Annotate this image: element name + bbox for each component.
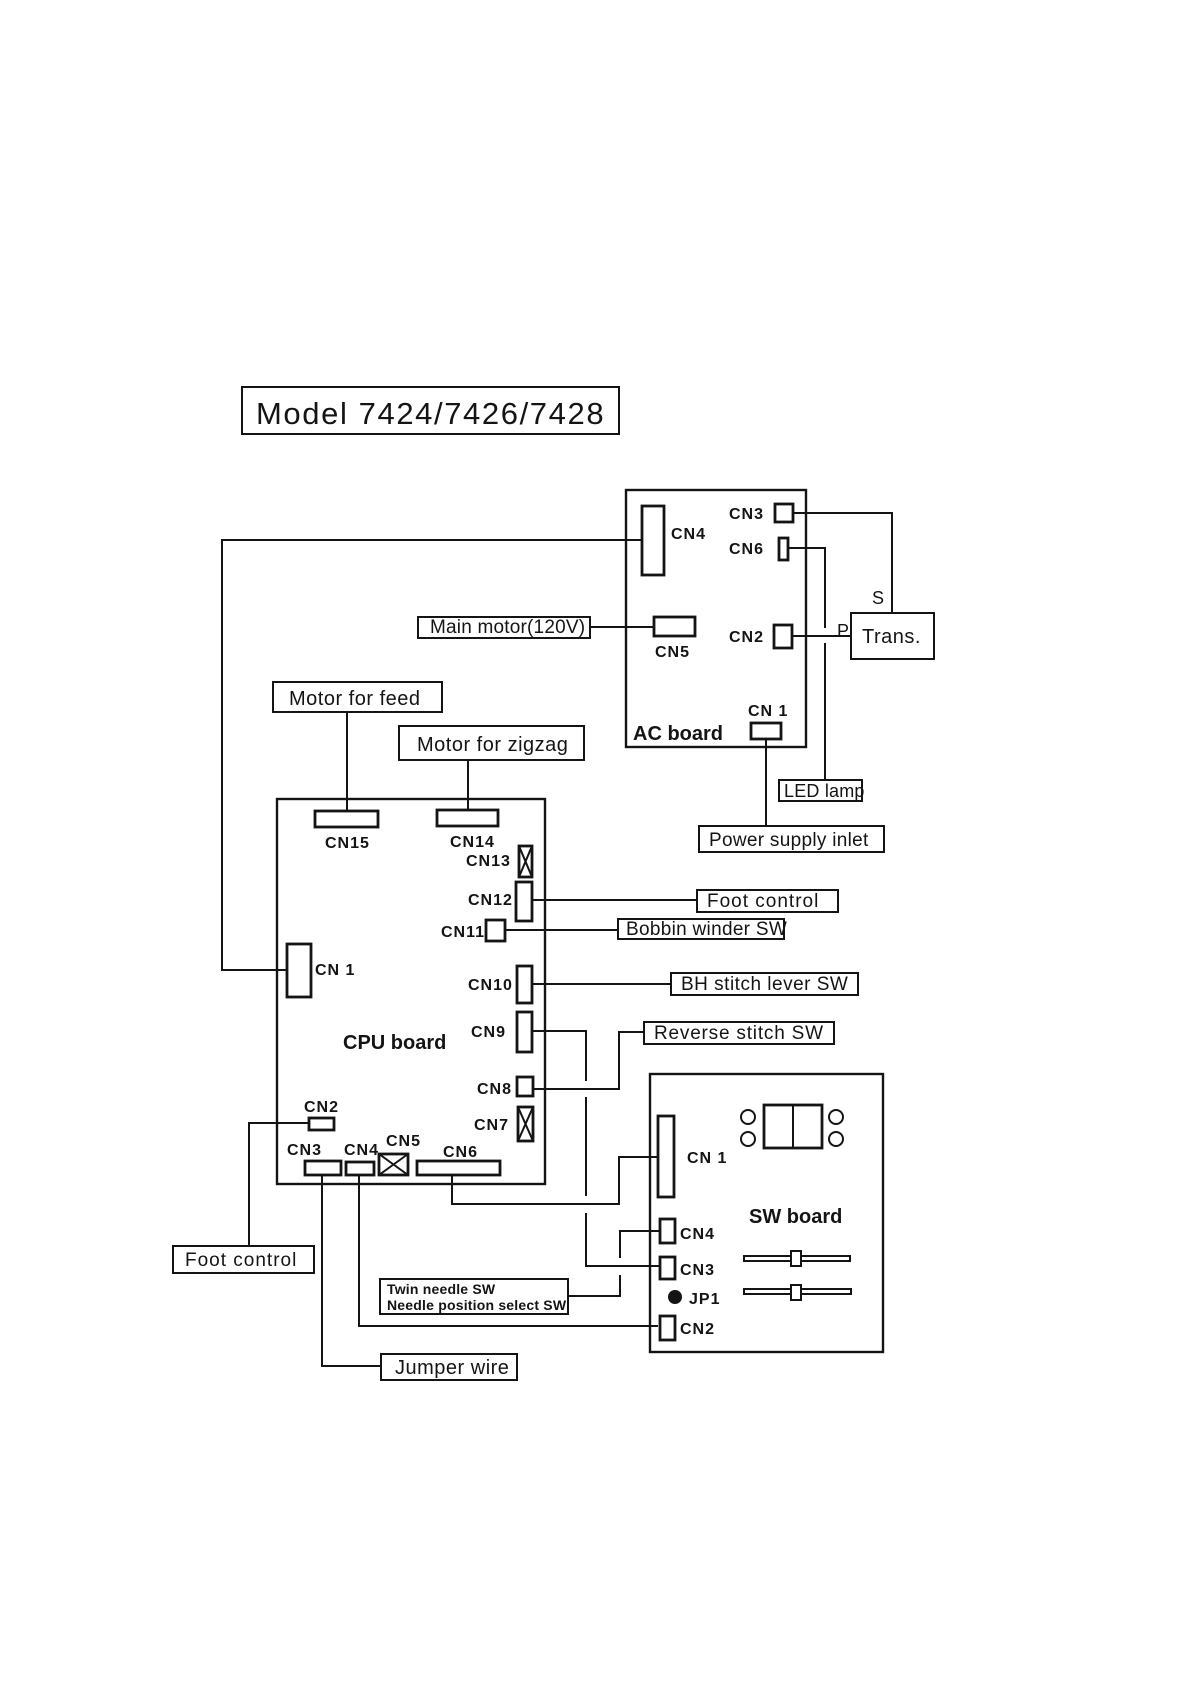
- wire AC CN3 to Trans S: [793, 513, 892, 613]
- svg-text:Needle position select SW: Needle position select SW: [387, 1297, 567, 1313]
- svg-text:CN9: CN9: [471, 1024, 506, 1041]
- svg-text:Twin needle SW: Twin needle SW: [387, 1281, 496, 1297]
- connector CN1 (SW board): [658, 1116, 727, 1197]
- SW board outline: [650, 1074, 883, 1352]
- connector CN9 (CPU board): [471, 1012, 532, 1052]
- connector CN7 (CPU board, keyed): [474, 1107, 533, 1141]
- svg-text:P: P: [837, 621, 850, 641]
- transformer Trans.: [851, 613, 934, 659]
- label box Motor for zigzag: [399, 726, 584, 760]
- svg-text:Foot control: Foot control: [707, 891, 819, 912]
- connector CN1 (CPU board): [287, 944, 355, 997]
- label box BH stitch lever SW: [671, 973, 858, 995]
- connector CN4 (SW board): [660, 1219, 715, 1243]
- connector CN3 (AC board): [729, 504, 793, 523]
- wire CPU CN2 to Foot control (bottom left): [249, 1123, 309, 1246]
- label box Twin needle SW / Needle position select SW: [380, 1279, 568, 1314]
- svg-text:Motor for zigzag: Motor for zigzag: [417, 734, 568, 756]
- connector CN6 (AC board): [729, 538, 788, 560]
- label box Bobbin winder SW: [618, 919, 787, 940]
- svg-text:CN4: CN4: [344, 1142, 379, 1159]
- svg-text:CN10: CN10: [468, 977, 513, 994]
- wire AC CN4 to CPU CN1: [222, 540, 642, 970]
- svg-text:CN8: CN8: [477, 1081, 512, 1098]
- svg-text:CN5: CN5: [655, 644, 690, 661]
- label box Motor for feed: [273, 682, 442, 712]
- connector CN6 (CPU board): [417, 1144, 500, 1175]
- svg-text:CN 1: CN 1: [315, 962, 355, 979]
- svg-text:Jumper wire: Jumper wire: [395, 1357, 509, 1379]
- connector CN14 (CPU board): [437, 810, 498, 851]
- label box Reverse stitch SW: [644, 1022, 834, 1044]
- svg-text:CN4: CN4: [680, 1226, 715, 1243]
- connector CN4 (CPU board): [344, 1142, 379, 1175]
- wire CN9 to SW CN3 (vertical with crossing gaps): [532, 1031, 586, 1081]
- label box Jumper wire: [381, 1354, 517, 1380]
- connector CN8 (CPU board): [477, 1077, 533, 1098]
- svg-text:Bobbin winder SW: Bobbin winder SW: [626, 919, 787, 940]
- slider SW 1 (SW board): [744, 1251, 850, 1266]
- connector CN2 (CPU board): [304, 1099, 339, 1130]
- svg-text:CN15: CN15: [325, 835, 370, 852]
- slider SW 2 (SW board): [744, 1285, 851, 1300]
- svg-text:CN12: CN12: [468, 892, 513, 909]
- svg-text:JP1: JP1: [689, 1291, 720, 1308]
- svg-text:Power supply inlet: Power supply inlet: [709, 830, 869, 851]
- svg-text:Trans.: Trans.: [862, 626, 921, 648]
- connector CN11 (CPU board): [441, 920, 505, 941]
- connector CN5 (CPU board, keyed): [379, 1133, 421, 1175]
- svg-text:CN2: CN2: [729, 629, 764, 646]
- svg-text:Foot control: Foot control: [185, 1250, 297, 1271]
- svg-text:S: S: [872, 588, 885, 608]
- svg-text:CN4: CN4: [671, 526, 706, 543]
- svg-text:CN14: CN14: [450, 834, 495, 851]
- wire AC CN1 to Power supply inlet: [765, 739, 767, 826]
- switch block (SW board): [764, 1105, 822, 1148]
- mounting hole: [829, 1110, 843, 1124]
- label box Power supply inlet: [699, 826, 884, 852]
- wire Reverse stitch SW to CN8: [533, 1032, 644, 1089]
- label box Foot control (right): [697, 890, 838, 912]
- svg-text:CPU board: CPU board: [343, 1032, 446, 1054]
- connector CN2 (SW board): [660, 1316, 715, 1340]
- label box LED lamp: [779, 780, 865, 801]
- connector CN3 (CPU board): [287, 1142, 341, 1175]
- connector CN2 (AC board): [729, 625, 792, 648]
- wire (continues, gap at crossing): [824, 643, 826, 780]
- connector CN3 (SW board): [660, 1257, 715, 1279]
- svg-text:CN6: CN6: [729, 541, 764, 558]
- svg-text:AC board: AC board: [633, 723, 723, 745]
- svg-text:CN2: CN2: [304, 1099, 339, 1116]
- svg-text:LED lamp: LED lamp: [784, 781, 865, 801]
- svg-text:SW board: SW board: [749, 1206, 842, 1228]
- title box Model 7424/7426/7428: [242, 387, 619, 434]
- svg-text:Reverse stitch SW: Reverse stitch SW: [654, 1023, 824, 1044]
- label box Foot control (bottom left): [173, 1246, 314, 1273]
- svg-text:CN7: CN7: [474, 1117, 509, 1134]
- svg-text:Main motor(120V): Main motor(120V): [430, 617, 585, 638]
- svg-text:BH stitch lever SW: BH stitch lever SW: [681, 974, 848, 995]
- wire Motor for feed to CN15: [346, 712, 348, 811]
- svg-text:CN13: CN13: [466, 853, 511, 870]
- wire CN10 to BH stitch lever SW: [532, 983, 671, 985]
- svg-text:CN5: CN5: [386, 1133, 421, 1150]
- svg-text:CN3: CN3: [729, 506, 764, 523]
- wire Motor for zigzag to CN14: [467, 760, 469, 810]
- AC board outline: [626, 490, 806, 747]
- connector CN1 (AC board): [748, 703, 788, 739]
- connector CN15 (CPU board): [315, 811, 378, 852]
- svg-text:CN6: CN6: [443, 1144, 478, 1161]
- connector CN13 (CPU board, keyed): [466, 846, 532, 877]
- wire Main motor to AC CN5: [590, 626, 654, 628]
- mounting hole: [741, 1132, 755, 1146]
- svg-text:CN11: CN11: [441, 924, 485, 941]
- mounting hole (SW board, top-left pair): [741, 1110, 755, 1124]
- wire CPU CN6 to SW CN1: [452, 1157, 658, 1204]
- wire CPU CN3 to Jumper wire: [322, 1175, 381, 1366]
- connector CN10 (CPU board): [468, 966, 532, 1003]
- svg-text:CN2: CN2: [680, 1321, 715, 1338]
- svg-text:CN3: CN3: [287, 1142, 322, 1159]
- wire AC CN2 to Trans P: [792, 635, 851, 637]
- wire segment: [586, 1213, 660, 1266]
- jumper JP1 (SW board): [668, 1290, 720, 1308]
- CPU board outline: [277, 799, 545, 1184]
- svg-text:Motor for feed: Motor for feed: [289, 688, 421, 710]
- wire Twin needle box to SW CN4: [568, 1275, 620, 1296]
- connector CN5 (AC board): [654, 617, 695, 661]
- wire segment: [585, 1097, 587, 1196]
- wire CPU CN4 to SW CN2: [359, 1175, 658, 1326]
- svg-text:CN 1: CN 1: [687, 1150, 727, 1167]
- wire AC CN6 to LED lamp: [788, 548, 825, 628]
- mounting hole: [829, 1132, 843, 1146]
- svg-text:CN 1: CN 1: [748, 703, 788, 720]
- svg-text:Model 7424/7426/7428: Model 7424/7426/7428: [256, 396, 605, 431]
- wire segment: [620, 1231, 660, 1258]
- wire CN12 to Foot control: [532, 899, 697, 901]
- svg-text:CN3: CN3: [680, 1262, 715, 1279]
- connector CN4 (AC board): [642, 506, 706, 575]
- connector CN12 (CPU board): [468, 882, 532, 921]
- label box Main motor(120V): [418, 617, 590, 638]
- wire CN11 to Bobbin winder SW: [505, 929, 618, 931]
